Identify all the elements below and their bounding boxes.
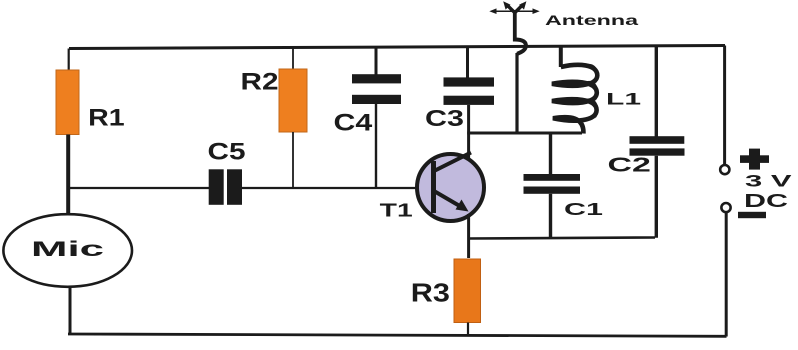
wire: microphone bottom lead xyxy=(69,287,72,336)
wire: right drop from rail to battery plus terminal xyxy=(723,46,726,165)
svg-text:3 V: 3 V xyxy=(745,172,792,190)
resistor R3 xyxy=(454,259,481,323)
svg-text:L1: L1 xyxy=(606,90,641,109)
wire: left drop from rail to R1 xyxy=(68,49,70,72)
wire: collector lead from C3 down to transistor xyxy=(467,105,470,158)
microphone Mic xyxy=(3,214,132,287)
wire: antenna drop to tank node xyxy=(515,53,518,133)
svg-text:Antenna: Antenna xyxy=(545,12,638,28)
svg-text:T1: T1 xyxy=(380,200,413,221)
transistor T1 xyxy=(417,153,484,222)
wire: tank node horizontal segment xyxy=(467,132,582,135)
capacitor C2 xyxy=(630,46,685,238)
capacitor C4 xyxy=(352,47,401,189)
battery minus terminal xyxy=(721,203,730,212)
resistor R1 xyxy=(56,70,79,135)
wire: top supply rail xyxy=(69,46,725,49)
svg-text:R3: R3 xyxy=(411,280,450,308)
wire: R2 bottom lead to base line xyxy=(292,132,294,188)
svg-text:C2: C2 xyxy=(608,154,651,176)
minus sign xyxy=(738,212,766,218)
wire: base line from C5 to transistor base xyxy=(242,187,433,189)
wire: bottom ground rail xyxy=(68,334,727,336)
svg-text:R1: R1 xyxy=(88,105,125,132)
svg-text:C4: C4 xyxy=(334,109,373,136)
antenna xyxy=(489,1,539,41)
svg-text:C3: C3 xyxy=(425,105,464,131)
wire: R2 top lead xyxy=(292,47,294,71)
capacitor C1 xyxy=(524,133,581,239)
plus sign xyxy=(740,149,769,170)
wire: emitter lead below transistor xyxy=(467,214,470,258)
svg-text:R2: R2 xyxy=(241,69,279,96)
wire: emitter rail to C1 and C2 bottoms xyxy=(469,238,655,239)
inductor L1 xyxy=(552,46,598,134)
wire: from battery minus terminal down to ground rail xyxy=(725,213,728,337)
wire: antenna hop over the rail xyxy=(515,40,526,54)
capacitor C3 xyxy=(444,46,495,105)
svg-text:Mic: Mic xyxy=(31,237,104,261)
svg-text:DC: DC xyxy=(744,191,788,211)
wire: R1 bottom lead down to microphone xyxy=(66,135,70,216)
resistor R2 xyxy=(279,69,307,132)
battery plus terminal xyxy=(720,165,729,174)
svg-text:C5: C5 xyxy=(208,139,246,166)
capacitor C5 xyxy=(209,169,242,205)
svg-text:C1: C1 xyxy=(564,199,603,219)
wire: R3 bottom lead to ground rail xyxy=(467,323,469,337)
wire: base line from R1/mic node to C5 xyxy=(67,187,210,189)
